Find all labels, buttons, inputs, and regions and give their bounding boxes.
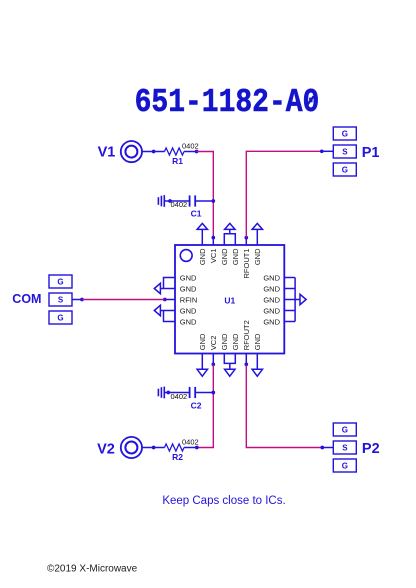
junction dot P1 (320, 149, 324, 153)
port P1 pads (333, 127, 356, 176)
svg-text:VC1: VC1 (209, 249, 218, 264)
svg-text:GND: GND (253, 333, 262, 350)
ground arrow right (300, 294, 306, 304)
svg-text:GND: GND (263, 273, 280, 282)
wire R2 to junction (184, 447, 197, 449)
op-amp U1 body (175, 245, 284, 354)
svg-text:Keep Caps close to ICs.: Keep Caps close to ICs. (162, 495, 285, 507)
connector V2 (121, 437, 142, 458)
junction dot (168, 199, 172, 203)
pin 1 indicator (180, 250, 192, 262)
pad S (P2) (333, 441, 356, 454)
svg-text:651-1182-A0: 651-1182-A0 (135, 84, 320, 122)
svg-text:GND: GND (220, 333, 229, 350)
junction dot P2 (320, 446, 324, 450)
wire into P2 S pad (322, 447, 333, 449)
wire ground to C1 (164, 200, 189, 202)
svg-text:U1: U1 (224, 295, 235, 305)
junction dot (211, 199, 215, 203)
top pin stubs and grounds (197, 223, 262, 245)
pin wire GND left2 (160, 288, 175, 290)
svg-text:G: G (342, 165, 348, 174)
staple GND top pair (224, 234, 235, 245)
pad S (COM) (49, 293, 72, 306)
ground (C2) (158, 387, 164, 399)
wire COM S pad to junction (72, 299, 82, 301)
capacitor C1 (190, 195, 196, 206)
ground arrow top1 (197, 223, 207, 229)
ground arrow left pair2 (154, 305, 160, 315)
pin stub RFOUT2 (245, 354, 247, 365)
ground arrow left pair1 (154, 283, 160, 293)
svg-text:GND: GND (220, 248, 229, 265)
connector V1 (121, 141, 142, 162)
ground arrow top6 (252, 223, 262, 229)
wire V1 to R1 (142, 151, 164, 153)
wire net VC1 (magenta) (197, 152, 214, 238)
staple GND left pair1 (164, 278, 176, 289)
wire ground to C2 (164, 392, 189, 394)
port COM pads (49, 275, 72, 324)
svg-text:R2: R2 (172, 452, 183, 462)
wire net VC2 (magenta) (197, 364, 214, 447)
svg-text:RFOUT2: RFOUT2 (242, 320, 251, 350)
svg-text:GND: GND (180, 317, 197, 326)
svg-text:COM: COM (12, 292, 41, 306)
pad G (P2 bottom) (333, 459, 356, 472)
svg-text:G: G (342, 425, 348, 434)
junction dot (211, 391, 215, 395)
ground arrow bot pair (225, 369, 235, 376)
svg-text:0402: 0402 (171, 200, 188, 209)
capacitor C2 (190, 387, 196, 398)
wire net RFOUT1 (magenta) (246, 151, 321, 237)
resistor R2 (165, 444, 185, 451)
svg-text:V1: V1 (98, 144, 116, 160)
junction dot RFOUT2 (244, 363, 248, 367)
svg-text:P1: P1 (362, 145, 380, 161)
svg-text:RFIN: RFIN (180, 295, 198, 304)
pin stubs right (284, 277, 295, 279)
pin stub GND bot1 (201, 354, 203, 370)
stub to arrow (229, 229, 231, 233)
ground arrow top pair (225, 223, 235, 229)
svg-text:R1: R1 (172, 156, 183, 166)
svg-text:GND: GND (263, 295, 280, 304)
junction dot VC2 (211, 363, 215, 367)
pin wire GND left4 (160, 310, 175, 312)
port P2 pads (333, 423, 356, 472)
ground arrow bot1 (197, 369, 207, 376)
svg-text:GND: GND (263, 284, 280, 293)
svg-text:RFOUT1: RFOUT1 (242, 249, 251, 279)
svg-text:C1: C1 (191, 209, 202, 219)
junction dot (195, 446, 199, 450)
svg-text:GND: GND (180, 284, 197, 293)
svg-text:S: S (58, 295, 64, 304)
svg-text:0402: 0402 (182, 438, 199, 447)
ground (C1) (158, 195, 164, 207)
svg-text:©2019 X-Microwave: ©2019 X-Microwave (47, 563, 138, 574)
ground arrow bot6 (252, 369, 262, 376)
svg-text:GND: GND (180, 273, 197, 282)
pad G (COM bottom) (49, 311, 72, 324)
svg-text:G: G (342, 129, 348, 138)
junction dot RFIN (163, 298, 167, 302)
pad S (P1) (333, 145, 356, 158)
svg-text:GND: GND (263, 317, 280, 326)
wire R1 to junction (184, 151, 197, 153)
left pin stubs and grounds (154, 278, 175, 322)
svg-text:VC2: VC2 (209, 336, 218, 351)
junction dot VC1 pin (211, 236, 215, 240)
junction dot COM (80, 298, 84, 302)
svg-text:V2: V2 (97, 441, 115, 457)
junction dot (152, 150, 156, 154)
staple GND bot pair (224, 354, 235, 364)
pin stub RFIN (165, 299, 175, 301)
svg-text:P2: P2 (362, 441, 380, 457)
svg-text:GND: GND (231, 248, 240, 265)
wire V2 to R2 (142, 447, 164, 449)
pad G (P1 bottom) (333, 163, 356, 176)
bus vertical (294, 278, 296, 322)
wire C2 to VC2 net (195, 392, 213, 394)
svg-text:GND: GND (231, 333, 240, 350)
svg-text:G: G (57, 313, 63, 322)
svg-text:GND: GND (198, 333, 207, 350)
pin stub GND top1 (201, 229, 203, 245)
pad G (P2 top) (333, 423, 356, 436)
pin stub RFOUT1 (245, 238, 247, 245)
junction dot RFOUT1 (244, 236, 248, 240)
resistor R1 (165, 148, 185, 155)
wire net RFIN (magenta) (82, 299, 165, 301)
pin stub GND bot6 (256, 354, 258, 370)
junction dot (152, 446, 156, 450)
pad G (P1 top) (333, 127, 356, 140)
pin stub VC2 (212, 354, 214, 365)
pad G (COM top) (49, 275, 72, 288)
pin stub GND top6 (256, 229, 258, 245)
svg-text:GND: GND (263, 306, 280, 315)
svg-text:GND: GND (253, 248, 262, 265)
svg-text:GND: GND (198, 248, 207, 265)
wire net RFOUT2 (magenta) (246, 364, 322, 447)
junction dot (166, 391, 170, 395)
svg-text:GND: GND (180, 306, 197, 315)
svg-text:G: G (57, 277, 63, 286)
svg-text:0402: 0402 (171, 392, 188, 401)
svg-text:0402: 0402 (182, 142, 199, 151)
stub to arrow (229, 363, 231, 369)
right pin stubs and ground bus (284, 278, 306, 322)
svg-text:S: S (342, 443, 348, 452)
staple GND left pair2 (164, 311, 176, 322)
wire C1 to VC1 net (195, 200, 213, 202)
svg-text:S: S (342, 147, 348, 156)
svg-text:C2: C2 (191, 401, 202, 411)
wire into P1 S pad (322, 150, 333, 152)
pin stub VC1 (212, 238, 214, 245)
title 651-1182-A0 (135, 84, 320, 122)
bottom pin stubs and grounds (197, 354, 262, 377)
junction dot (195, 150, 199, 154)
svg-text:G: G (342, 461, 348, 470)
